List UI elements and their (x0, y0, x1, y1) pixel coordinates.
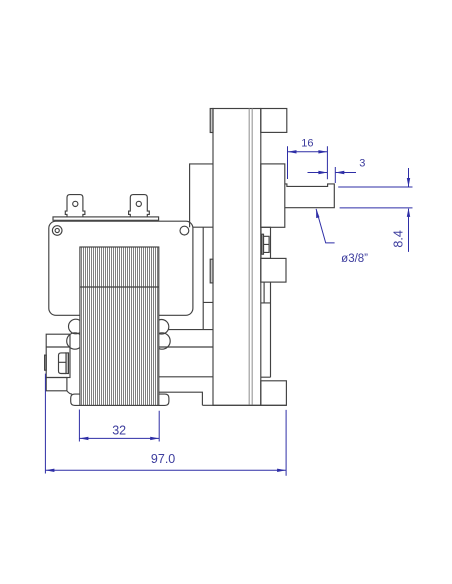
gearbox foot (261, 381, 287, 406)
terminal T2 hole (136, 201, 141, 206)
dimension 8.4 (338, 168, 412, 252)
stack divider (80, 286, 159, 288)
terminal T2 (129, 195, 150, 217)
bolt boss left lower (67, 333, 83, 349)
dimension 3 (308, 167, 357, 183)
cap screw right (180, 226, 189, 235)
stack border (80, 247, 159, 405)
terminal strip (53, 217, 159, 220)
dimension 32 (79, 410, 159, 442)
adjuster washer bar (262, 234, 264, 254)
motor mounting bracket (159, 164, 213, 377)
gearbox top-right boss (261, 109, 287, 133)
gearbox right column (261, 282, 271, 377)
bolt boss right upper (154, 320, 169, 335)
lamination stack (80, 247, 159, 405)
bolt boss left upper (69, 319, 84, 334)
svg-text:ø3/8”: ø3/8” (341, 253, 368, 265)
bearing adjuster housing (261, 227, 271, 258)
dimension 97.0 (45, 374, 286, 476)
dimension 16 (288, 146, 328, 179)
motor end cap (bobbin) (49, 221, 193, 315)
left lower plate (46, 378, 67, 391)
adjuster nut (264, 236, 270, 252)
svg-text:16: 16 (301, 137, 313, 149)
output shaft (285, 184, 335, 208)
svg-text:97.0: 97.0 (151, 452, 175, 466)
terminal T1 (65, 195, 85, 217)
cap screw left (52, 226, 62, 236)
gearbox cover seam lines (249, 109, 252, 406)
left bearing bracket (46, 334, 70, 377)
gearbox lower-right boss (261, 258, 286, 282)
leader diameter 3/8 (316, 209, 335, 243)
left nut washer (66, 353, 69, 374)
left lower plate corner (67, 391, 72, 394)
gearbox bottom edge (202, 404, 286, 406)
svg-text:8.4: 8.4 (392, 230, 406, 247)
bolt boss right lower (154, 333, 170, 349)
svg-text:32: 32 (112, 423, 126, 437)
gearbox top-left tab (210, 109, 213, 133)
motor rear mounting plate bottom (159, 392, 203, 405)
bottom plate tab right (159, 394, 169, 405)
terminal T1 hole (73, 201, 78, 206)
output shaft boss (261, 164, 285, 227)
svg-text:3: 3 (359, 158, 365, 170)
left adjusting nut (59, 353, 67, 374)
gearbox body (213, 109, 261, 406)
bottom plate tab left (71, 394, 81, 405)
gearbox mid-left tab (210, 259, 213, 283)
left nub (45, 355, 47, 370)
